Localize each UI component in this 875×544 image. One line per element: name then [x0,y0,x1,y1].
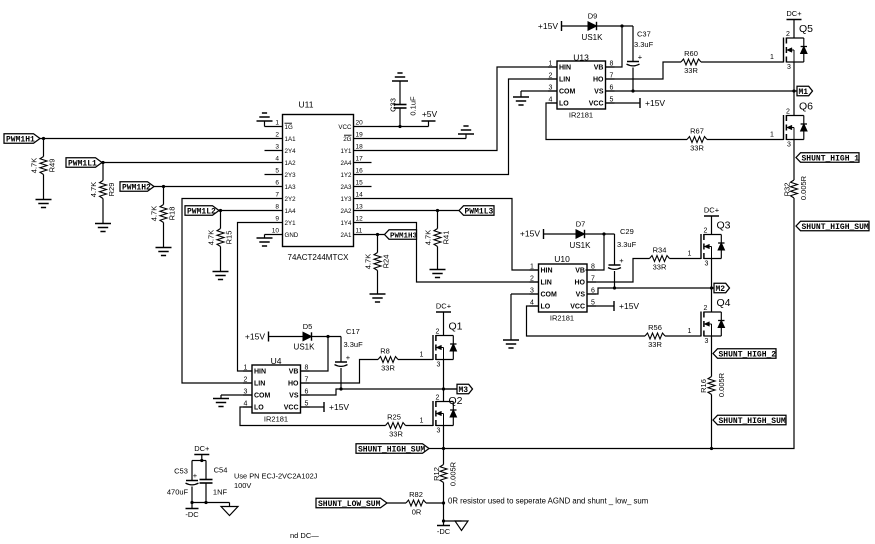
wire U10 COM [511,293,539,295]
wire U13 LO to R67 [546,103,687,140]
wire D5 to C17 [312,336,342,338]
svg-text:VS: VS [594,89,604,96]
svg-text:IR2181: IR2181 [569,111,593,120]
wire pin1 U11 [265,126,283,128]
svg-text:3: 3 [705,261,709,268]
node R12 bottom [442,501,445,504]
svg-text:3.3uF: 3.3uF [617,240,637,249]
node M2 junction [710,286,713,289]
svg-text:20: 20 [356,120,364,127]
resistor R41 4.7K [424,211,451,270]
svg-text:4: 4 [275,156,279,163]
node C17 bottom [339,387,342,390]
svg-text:0.005R: 0.005R [449,461,458,486]
svg-text:HIN: HIN [541,268,553,275]
svg-text:18: 18 [356,144,364,151]
note C54 PN [234,472,318,491]
svg-text:12: 12 [356,216,364,223]
svg-text:3: 3 [437,428,441,435]
svg-text:LO: LO [559,101,569,108]
ground C33 (flipped) [392,73,408,81]
gate driver U13 IR2181 [548,53,615,120]
resistor R49 4.7K [30,139,57,200]
svg-text:14: 14 [356,192,364,199]
wire shunt high sum down [444,226,795,449]
svg-text:15: 15 [356,180,364,187]
wire +15V to D7 [544,233,577,235]
svg-text:6: 6 [275,180,279,187]
resistor R32 0.005R [783,175,809,226]
net flag PWM1L2 [185,206,219,217]
svg-text:U11: U11 [299,100,314,110]
node R24 tap [376,233,379,236]
svg-text:2: 2 [436,395,440,402]
svg-text:COM: COM [254,393,271,400]
svg-text:4.7K: 4.7K [30,158,39,173]
wire Q1 source to M3 [443,360,445,402]
svg-text:C29: C29 [620,227,634,236]
wire R60 to Q5 gate [701,61,784,63]
resistor R16 0.005R [699,372,726,420]
power +15V U13 VCC [640,98,665,108]
svg-text:2: 2 [704,305,708,312]
svg-text:2A3: 2A3 [340,184,352,191]
wire VB13 drop [605,26,622,67]
resistor R24 4.7K [364,235,391,295]
wire U4 HO [301,360,379,384]
svg-text:PWM1H2: PWM1H2 [122,183,151,192]
transistor Q6 [770,101,813,149]
svg-text:R82: R82 [409,490,423,499]
wire VCC U11 [354,126,429,128]
svg-text:+15V: +15V [245,332,265,342]
node shunt junction mid [710,447,713,450]
svg-text:2: 2 [244,377,248,384]
wire R67 to Q6 gate [707,139,784,141]
svg-text:R16: R16 [699,379,708,393]
svg-text:M1: M1 [799,88,809,97]
svg-text:3: 3 [275,144,279,151]
svg-text:1: 1 [770,132,774,139]
svg-text:33R: 33R [690,144,704,153]
transistor Q2 [420,395,463,435]
svg-text:+15V: +15V [520,229,540,239]
wire DC+ to Q5 [793,20,795,39]
capacitor C29 3.3uF [608,227,637,288]
node cap top [200,459,203,462]
svg-text:PWM1L1: PWM1L1 [68,159,97,168]
power DC+ Q5 [786,9,802,20]
wire Q6 source [793,140,795,181]
svg-text:0.1uF: 0.1uF [409,96,418,116]
wire 1Y1 to U13 HIN [354,67,558,151]
resistor R25 33R [386,413,406,439]
wire R8 to Q1 gate [398,359,433,361]
wire Q2 source [443,426,445,449]
svg-text:4.7K: 4.7K [424,230,433,245]
node VB13 [620,24,623,27]
svg-text:1: 1 [275,120,279,127]
svg-text:R32: R32 [783,183,792,197]
svg-text:1A3: 1A3 [285,184,297,191]
wire 1Y2 to U13 LIN [354,79,558,175]
net flag PWM1H2 [120,182,154,193]
svg-text:R56: R56 [648,323,662,332]
node C33 tap [398,125,401,128]
svg-text:1Y4: 1Y4 [340,220,352,227]
svg-text:1NF: 1NF [213,488,228,497]
wire VS10 to M2 [587,288,712,294]
svg-text:GND: GND [285,232,299,239]
wire 1Y4 to U10 LIN [354,223,539,283]
buffer U11 74ACT244MTCX [272,100,363,263]
power DC+ C53 [194,444,210,455]
node R41 tap [436,209,439,212]
svg-text:2Y3: 2Y3 [285,172,297,179]
power +15V U10 VCC [614,301,639,311]
gate driver U4 IR2181 [243,356,310,424]
wire pin3 stub [265,150,283,152]
wire R82 to junction [426,502,444,504]
svg-text:2: 2 [436,329,440,336]
svg-text:VB: VB [594,65,604,72]
power +15V D9 [538,21,562,31]
svg-text:R67: R67 [690,127,704,136]
wire D7 to C29 [585,233,615,235]
svg-text:1: 1 [688,251,692,258]
wire 2Y2 to U4 LIN [182,199,283,384]
capacitor C33 0.1uF [389,81,418,127]
node VB4 [326,335,329,338]
ground AGND (shunt) [444,521,469,531]
svg-text:1: 1 [549,61,553,68]
svg-text:R12: R12 [432,467,441,481]
svg-text:8: 8 [275,204,279,211]
resistor R67 33R [687,127,707,153]
node C53 bottom [190,501,193,504]
svg-text:10: 10 [272,228,280,235]
svg-text:2Y1: 2Y1 [285,220,297,227]
wire U4 COM [221,394,252,396]
wire U13 VCC [605,102,640,104]
svg-text:1A1: 1A1 [285,136,297,143]
net flag M2 [712,283,730,294]
svg-text:D7: D7 [576,220,586,229]
svg-text:4.7K: 4.7K [207,230,216,245]
svg-text:VCC: VCC [570,304,585,311]
diode D5 US1K [294,322,316,352]
svg-text:M2: M2 [716,285,726,294]
node R18 tap [162,185,165,188]
wire R34 to Q3 gate [670,258,702,260]
svg-text:IR2181: IR2181 [264,415,288,424]
svg-text:Q5: Q5 [799,23,813,35]
svg-text:+: + [638,53,643,62]
wire R16 down [711,420,713,449]
svg-text:DC+: DC+ [194,444,210,453]
svg-text:2A2: 2A2 [340,208,352,215]
svg-text:-DC: -DC [185,510,199,519]
svg-text:HO: HO [575,280,586,287]
wire R56 to Q4 gate [665,335,701,337]
wire VS13 to M1 [605,90,794,92]
power +5V [422,109,438,127]
ground R49 [36,200,52,208]
svg-text:R15: R15 [225,231,234,245]
svg-text:C54: C54 [214,466,228,475]
capacitor C53 470uF [167,461,199,503]
svg-text:DC+: DC+ [704,206,720,215]
svg-text:HO: HO [593,77,604,84]
svg-text:SHUNT_LOW_SUM: SHUNT_LOW_SUM [318,500,381,509]
wire pin17 stub [354,162,372,164]
svg-text:VCC: VCC [284,405,299,412]
ground R24 [370,294,386,302]
svg-text:R29: R29 [107,183,116,197]
wire pin13 PWM1L3 [354,210,460,212]
wire +15V to D9 [562,25,589,27]
ground AGND C54 [221,503,238,516]
svg-text:1Y2: 1Y2 [340,172,352,179]
svg-text:2Y2: 2Y2 [285,196,297,203]
svg-text:IR2181: IR2181 [550,314,574,323]
ground R29 [95,224,111,232]
wire VB10 drop [586,234,605,270]
svg-text:Q4: Q4 [716,297,730,309]
svg-text:1: 1 [530,264,534,271]
svg-text:PWM1L3: PWM1L3 [465,207,494,216]
wire U13 HO [605,62,681,79]
wire pin10 gnd [265,234,283,236]
svg-text:PWM1H1: PWM1H1 [6,135,35,144]
net flag M1 [794,86,813,97]
svg-text:16: 16 [356,168,364,175]
svg-text:0R: 0R [412,508,422,517]
svg-text:VCC: VCC [338,124,352,131]
svg-text:VCC: VCC [589,101,604,108]
svg-text:2: 2 [704,228,708,235]
svg-text:PWM1L2: PWM1L2 [187,207,216,216]
node R49 tap [42,137,45,140]
node C54 bottom [204,501,207,504]
svg-text:U10: U10 [554,254,570,264]
svg-text:1A4: 1A4 [285,208,297,215]
svg-text:DC+: DC+ [786,9,802,18]
svg-text:4.7K: 4.7K [364,254,373,269]
svg-text:LO: LO [254,405,264,412]
node R15 tap [219,209,222,212]
svg-text:Use PN ECJ-2VC2A102J: Use PN ECJ-2VC2A102J [234,472,318,481]
svg-text:R18: R18 [168,207,177,221]
wire U10 VCC [587,305,614,307]
wire DC+ to caps [201,455,203,461]
wire PWM1H1 [40,138,283,140]
svg-text:C17: C17 [346,327,360,336]
wire pin19 [354,138,467,140]
wire Q5 source to M1 [793,62,795,116]
ground U10 COM [503,294,519,348]
svg-text:11: 11 [356,228,363,235]
svg-text:2Y4: 2Y4 [285,148,297,155]
svg-text:COM: COM [559,89,576,96]
svg-text:R60: R60 [684,49,698,58]
wire VS4 to M3 [301,389,457,395]
node R29 tap [101,161,104,164]
transistor Q5 [770,23,813,71]
svg-text:2: 2 [530,276,534,283]
node shunt junction left [442,447,445,450]
svg-text:HIN: HIN [559,65,571,72]
node VB10 [602,232,605,235]
svg-text:Q6: Q6 [799,101,813,113]
svg-text:33R: 33R [684,66,698,75]
transistor Q1 [420,321,463,369]
svg-text:M3: M3 [459,386,469,395]
wire U4 VCC [301,406,325,408]
svg-text:2: 2 [549,73,553,80]
svg-text:R8: R8 [380,347,390,356]
power -DC (shunt) [437,521,451,536]
svg-text:VB: VB [289,369,299,376]
svg-text:HO: HO [288,381,299,388]
net flag PWM1H3 [385,230,418,241]
diode D7 US1K [570,220,592,251]
text fragment nd DC [290,531,319,540]
wire PWM1L2 [219,210,283,212]
power DC+ Q3 [704,206,720,217]
svg-text:2G: 2G [343,136,351,143]
svg-text:SHUNT_HIGH_1: SHUNT_HIGH_1 [802,154,860,163]
svg-text:Q1: Q1 [448,321,462,333]
svg-text:R41: R41 [442,231,451,245]
svg-text:VS: VS [576,292,586,299]
svg-text:0.005R: 0.005R [799,175,808,200]
wire DC+ to Q1 [443,312,445,336]
svg-text:C37: C37 [637,30,651,39]
svg-text:470uF: 470uF [167,488,189,497]
svg-text:19: 19 [356,132,364,139]
net flag SHUNT_LOW_SUM [316,498,387,509]
resistor R60 33R [681,49,701,75]
svg-text:3: 3 [437,362,441,369]
wire flag to junction [429,448,444,450]
svg-text:US1K: US1K [294,343,316,352]
svg-text:U13: U13 [573,53,589,63]
svg-text:0.005R: 0.005R [717,372,726,397]
wire pin15 stub [354,186,372,188]
node C37 bottom [631,89,634,92]
svg-text:2: 2 [786,31,790,38]
net flag SHUNT_HIGH_SUM (left) [356,444,429,455]
svg-text:33R: 33R [653,263,667,272]
wire U13 COM [521,90,557,92]
svg-text:0R resistor used to seperate A: 0R resistor used to seperate AGND and sh… [448,497,648,506]
ground (pin 1 enable) [257,113,273,127]
wire DC+ to Q3 [711,216,713,235]
svg-text:+5V: +5V [422,109,438,119]
svg-text:SHUNT_HIGH_SUM: SHUNT_HIGH_SUM [719,417,786,426]
net flag SHUNT_HIGH_1 [796,153,859,164]
svg-text:1: 1 [244,365,248,372]
svg-text:D5: D5 [303,322,313,331]
wire flag to R82 [387,502,406,504]
ground R41 [430,270,446,278]
svg-text:7: 7 [275,192,279,199]
wire VB4 drop [301,337,329,372]
wire Q3 source to M2 [711,259,713,313]
svg-text:LIN: LIN [541,280,552,287]
ground R18 [156,248,172,256]
net flag PWM1L3 [459,206,494,217]
svg-text:C33: C33 [389,98,398,112]
svg-text:VS: VS [289,393,299,400]
wire Q4 source [711,336,713,377]
svg-text:4.7K: 4.7K [150,206,159,221]
capacitor C37 3.3uF [627,26,654,91]
svg-text:1: 1 [420,418,424,425]
resistor R12 0.005R [432,449,458,504]
net flag PWM1L1 [66,158,102,169]
wire U10 LO to R56 [527,306,646,336]
svg-text:+15V: +15V [645,98,665,108]
ground U13 COM [513,91,529,105]
svg-text:C53: C53 [174,467,188,476]
power +15V D7 [520,229,544,240]
wire 1Y3 to U10 HIN [354,199,539,271]
diode D9 US1K [582,12,604,43]
node C29 bottom [613,286,616,289]
svg-text:3.3uF: 3.3uF [344,340,364,349]
svg-text:3.3uF: 3.3uF [634,40,654,49]
wire cap bottom rail [192,502,230,504]
net flag PWM1H1 [4,134,40,145]
svg-text:4.7K: 4.7K [89,182,98,197]
svg-text:2A1: 2A1 [340,232,352,239]
ground pin19 (flipped) [458,126,474,139]
power DC+ Q1 [436,302,452,313]
svg-text:+: + [346,353,351,362]
svg-text:DC+: DC+ [436,302,452,311]
svg-text:2A4: 2A4 [340,160,352,167]
svg-text:SHUNT_HIGH_SUM: SHUNT_HIGH_SUM [358,445,425,454]
svg-text:1: 1 [688,328,692,335]
svg-text:1: 1 [420,352,424,359]
resistor R8 33R [378,347,398,373]
svg-text:33R: 33R [381,364,395,373]
gate driver U10 IR2181 [530,254,597,323]
svg-text:33R: 33R [648,340,662,349]
wire cap top rail [192,460,206,462]
svg-text:Q2: Q2 [448,395,462,407]
ground U4 COM [213,395,229,407]
svg-text:74ACT244MTCX: 74ACT244MTCX [288,253,350,262]
capacitor C17 3.3uF [335,327,364,389]
node M1 junction [792,89,795,92]
svg-text:17: 17 [356,156,364,163]
svg-text:1: 1 [770,54,774,61]
svg-text:LIN: LIN [559,77,570,84]
wire U4 LO to R25 [240,407,386,426]
net flag M3 [444,384,473,395]
power +15V U4 VCC [324,402,349,412]
svg-text:D9: D9 [588,12,598,21]
svg-text:13: 13 [356,204,364,211]
resistor R18 4.7K [150,187,177,248]
svg-text:PWM1H3: PWM1H3 [390,232,418,240]
svg-text:-DC: -DC [437,527,451,536]
svg-text:SHUNT_HIGH_SUM: SHUNT_HIGH_SUM [802,223,869,232]
transistor Q3 [688,220,731,268]
